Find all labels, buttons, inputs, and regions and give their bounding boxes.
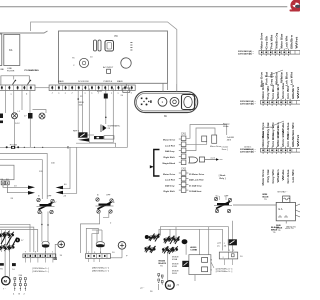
svg-text:Grn Wht: Grn Wht — [286, 86, 290, 99]
svg-text:MOV: MOV — [97, 91, 103, 93]
svg-text:Grn Blue: Grn Blue — [271, 132, 275, 147]
svg-text:Motor Drive: Motor Drive — [261, 169, 265, 186]
svg-text:Pink Nat: Pink Nat — [265, 72, 269, 85]
svg-text:25 Motor Drive: 25 Motor Drive — [189, 173, 205, 176]
svg-text:Motor Blue: Motor Blue — [281, 82, 285, 99]
svg-text:Wht/Brn: Wht/Brn — [276, 169, 280, 182]
svg-text:TransXfmr: TransXfmr — [264, 126, 274, 129]
svg-text:OFF: OFF — [47, 196, 52, 198]
svg-text:Motor Drive: Motor Drive — [163, 173, 176, 176]
svg-text:REF 1: REF 1 — [73, 131, 80, 133]
svg-text:COMB: COMB — [190, 250, 197, 252]
svg-text:Magia Black: Magia Black — [163, 163, 176, 165]
svg-text:Motor Blue: Motor Blue — [280, 33, 284, 49]
svg-text:[380V/40Mw+5 ~]: [380V/40Mw+5 ~] — [92, 270, 110, 272]
svg-text:220V/240V(B) ~: 220V/240V(B) ~ — [240, 151, 256, 154]
svg-text:White: White — [281, 169, 285, 181]
svg-text:Right Shift: Right Shift — [164, 156, 175, 159]
svg-text:[240V/60Hz+5 ~]: [240V/60Hz+5 ~] — [33, 271, 50, 273]
svg-text:K1: K1 — [9, 48, 13, 52]
svg-text:220V/240V(B) ~: 220V/240V(B) ~ — [238, 53, 254, 56]
svg-text:Wht Brn: Wht Brn — [276, 83, 280, 99]
svg-text:[380V/32Mw+5 ~]: [380V/32Mw+5 ~] — [92, 268, 110, 270]
svg-text:Lock Wht: Lock Wht — [285, 36, 289, 49]
svg-text:Lok Wht: Lok Wht — [290, 72, 294, 85]
svg-text:453A: 453A — [172, 258, 178, 261]
svg-text:Wht/Brn Org: Wht/Brn Org — [275, 32, 279, 48]
svg-text:Rely ]: Rely ] — [220, 178, 226, 180]
svg-text:Lok Blue: Lok Blue — [285, 71, 289, 86]
svg-text:[220V/50Hz+5 ~]: [220V/50Hz+5 ~] — [216, 269, 233, 271]
svg-text:=B10 TD: =B10 TD — [285, 228, 294, 230]
svg-text:out 1: out 1 — [211, 157, 217, 160]
svg-text:White: White — [223, 125, 229, 128]
svg-text:Lock Red: Lock Red — [165, 145, 176, 147]
svg-text:Wht Brn: Wht Brn — [276, 131, 280, 147]
svg-text:220V/240V(B) ~: 220V/240V(B) ~ — [240, 103, 256, 106]
svg-text:CN1: CN1 — [181, 133, 187, 136]
svg-text:Poly Wht: Poly Wht — [266, 134, 270, 147]
svg-text:MAIN: MAIN — [58, 80, 64, 83]
svg-text:Motor Blue: Motor Blue — [281, 130, 285, 147]
svg-text:[ Neok: [ Neok — [219, 175, 226, 177]
svg-text:24A Gray: 24A Gray — [165, 184, 175, 187]
svg-text:TD: TD — [160, 266, 163, 268]
svg-text:Blk/Brn: Blk/Brn — [290, 34, 294, 49]
svg-text:Wht/Brn: Wht/Brn — [275, 72, 279, 85]
svg-text:PURPLE: PURPLE — [104, 81, 113, 83]
svg-text:oC: oC — [217, 246, 220, 248]
svg-text:Blk/Brn: Blk/Brn — [291, 132, 295, 147]
svg-text:White: White — [280, 71, 284, 83]
svg-text:DOOR SW: DOOR SW — [78, 81, 90, 83]
svg-text:TD: TD — [0, 269, 3, 271]
svg-text:J: J — [131, 92, 132, 94]
svg-text:CN2: CN2 — [181, 168, 187, 171]
svg-text:OFF: OFF — [224, 196, 229, 198]
svg-text:TD: TD — [273, 232, 276, 234]
svg-text:Grn Blue: Grn Blue — [271, 84, 275, 99]
svg-text:[220V/60Hz+5 ~]: [220V/60Hz+5 ~] — [216, 271, 233, 273]
svg-text:Transition: Transition — [265, 75, 275, 78]
svg-text:[220V/50Hz+5 ~]: [220V/50Hz+5 ~] — [33, 268, 50, 270]
svg-text:Grn Wht: Grn Wht — [286, 134, 290, 147]
svg-text:Lok Wht: Lok Wht — [291, 169, 295, 182]
svg-text:Micro-Drive: Micro-Drive — [210, 145, 222, 148]
svg-text:FILTER: FILTER — [7, 71, 15, 73]
svg-text:Pnk Wht: Pnk Wht — [270, 35, 274, 49]
svg-text:Lock Red: Lock Red — [165, 180, 176, 182]
svg-text:NTSTAT ~: NTSTAT ~ — [278, 191, 289, 194]
svg-text:4538: 4538 — [172, 266, 178, 268]
svg-text:Motor Drive: Motor Drive — [261, 82, 265, 99]
svg-text:AC INPUT: AC INPUT — [103, 66, 114, 69]
svg-text:PO MARKING: PO MARKING — [25, 69, 40, 72]
svg-text:24A Gray: 24A Gray — [165, 150, 175, 153]
svg-text:Motor Drive: Motor Drive — [261, 130, 265, 147]
svg-text:Motor Drive: Motor Drive — [163, 139, 176, 142]
svg-text:MAIN: MAIN — [117, 80, 123, 83]
svg-text:OFF: OFF — [106, 195, 111, 197]
svg-text:Blk/Brn: Blk/Brn — [291, 84, 295, 99]
svg-text:TD: TD — [278, 230, 281, 232]
svg-text:E A: E A — [279, 208, 283, 211]
svg-text:Wht: Wht — [296, 135, 300, 147]
svg-text:18 24A Heat: 18 24A Heat — [189, 190, 202, 193]
svg-text:Wht: Wht — [295, 37, 299, 49]
svg-text:Grn Blue: Grn Blue — [286, 169, 290, 184]
svg-text:Motor Drive: Motor Drive — [260, 32, 264, 49]
svg-text:Right Shift: Right Shift — [164, 190, 175, 193]
svg-text:Grey Wht: Grey Wht — [271, 169, 275, 183]
svg-text:Poly Wht: Poly Wht — [266, 86, 270, 99]
svg-text:Poly Nat: Poly Nat — [266, 169, 270, 182]
svg-text:LINE: LINE — [0, 69, 4, 71]
svg-text:TD: TD — [264, 199, 267, 201]
svg-text:J: J — [71, 92, 72, 94]
svg-text:14°C: 14°C — [15, 123, 20, 125]
svg-text:21 24A Gray: 21 24A Gray — [189, 184, 202, 187]
svg-text:24A Lock Red: 24A Lock Red — [189, 179, 204, 182]
svg-text:9618: 9618 — [172, 273, 178, 275]
svg-text:J: J — [52, 92, 53, 94]
svg-text:Func ]: Func ] — [222, 149, 228, 151]
svg-text:Grey Blk: Grey Blk — [265, 35, 269, 49]
svg-text:Wht: Wht — [296, 87, 300, 99]
svg-text:=0 ~: =0 ~ — [140, 288, 145, 290]
